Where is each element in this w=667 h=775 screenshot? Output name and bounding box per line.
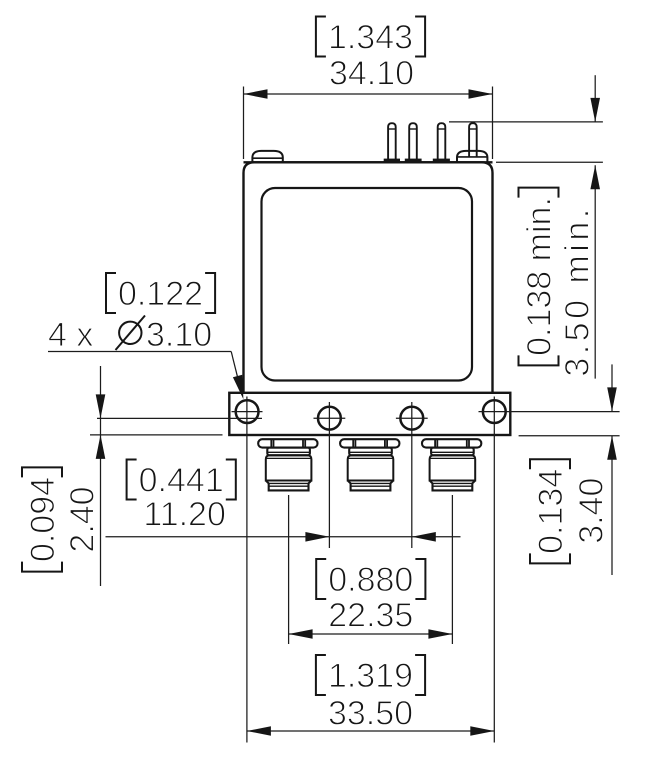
rivet right <box>457 151 487 162</box>
brackets for [1.319] <box>316 655 425 695</box>
body top edge <box>244 161 493 163</box>
mounting hole H1 <box>236 400 259 423</box>
connector C1 centerline <box>288 495 290 644</box>
svg-text:0.138 min.: 0.138 min. <box>521 197 559 356</box>
svg-text:0.094: 0.094 <box>24 477 62 562</box>
svg-text:2.40: 2.40 <box>64 486 102 552</box>
dimension 2.40 (hole center to flange bottom, left) <box>90 366 262 586</box>
brackets for [1.343] <box>316 17 425 57</box>
rivet left <box>252 151 282 162</box>
body inner cover plate <box>262 188 473 381</box>
svg-text:33.50: 33.50 <box>328 695 413 733</box>
connector C3 centerline <box>451 495 453 644</box>
svg-text:0.441: 0.441 <box>139 462 224 500</box>
mounting hole H2 <box>318 407 341 430</box>
brackets for [0.880] <box>316 559 425 599</box>
svg-text:34.10: 34.10 <box>329 55 414 93</box>
brackets for [0.441] <box>127 460 236 500</box>
hole H4 crosshair + extension to 33.50 dim <box>479 411 507 413</box>
relay body outline <box>244 162 493 393</box>
dimension 11.20 (middle hole spacing) <box>106 536 461 538</box>
leader 4 x Ø3.10 (mounting holes callout) <box>48 352 242 396</box>
dimension 3.40 (hole center to flange bottom, right) <box>506 364 620 575</box>
SMA connector C1 <box>258 439 317 490</box>
svg-text:3.40: 3.40 <box>572 478 610 544</box>
rotated brackets [0.134] <box>530 553 570 563</box>
svg-text:22.35: 22.35 <box>328 597 413 635</box>
hole H2 crosshair + extension to 11.20 dim <box>314 417 346 419</box>
svg-text:3.50 min.: 3.50 min. <box>558 205 596 376</box>
svg-text:0.880: 0.880 <box>328 561 413 599</box>
svg-text:1.343: 1.343 <box>328 19 413 57</box>
value label [0.138 min.] rotated <box>519 188 559 366</box>
brackets for [0.122] <box>106 273 215 313</box>
svg-text:0.122: 0.122 <box>118 275 203 313</box>
rotated brackets [0.138 min.] <box>519 355 559 365</box>
SMA connector C3 <box>422 439 481 490</box>
pin P1 <box>388 123 396 160</box>
svg-text:0.134: 0.134 <box>532 469 570 554</box>
value label [0.134] rotated <box>530 459 570 563</box>
dimension 33.50 (outer hole spacing) <box>247 730 494 732</box>
thin line work: centerlines and extension lines <box>232 397 507 743</box>
mounting hole H3 <box>400 407 423 430</box>
dimension 34.10 (top width) <box>244 87 493 160</box>
mounting hole H4 <box>483 400 506 423</box>
value label [0.094] rotated <box>22 467 62 571</box>
svg-text:4 x: 4 x <box>48 316 93 354</box>
pin P2 <box>409 123 417 160</box>
diameter symbol <box>116 316 146 351</box>
pin P3 <box>438 123 446 160</box>
dimension 3.50 min (pin height, right top) <box>449 75 603 378</box>
pin P4 <box>469 123 477 156</box>
hole H1 crosshair + extension to 33.50 dim <box>232 411 263 413</box>
dimension 22.35 (outer connector spacing) <box>289 633 453 635</box>
pin solder pads <box>384 159 450 162</box>
svg-text:11.20: 11.20 <box>143 496 226 534</box>
rotated brackets [0.094] <box>22 562 62 572</box>
SMA connector C2 <box>340 439 399 490</box>
svg-text:3.10: 3.10 <box>146 316 212 354</box>
pin cap ticks <box>388 128 477 130</box>
svg-text:1.319: 1.319 <box>328 657 413 695</box>
hole H3 crosshair + extension to 11.20 dim <box>396 417 428 419</box>
mounting flange <box>229 393 510 435</box>
